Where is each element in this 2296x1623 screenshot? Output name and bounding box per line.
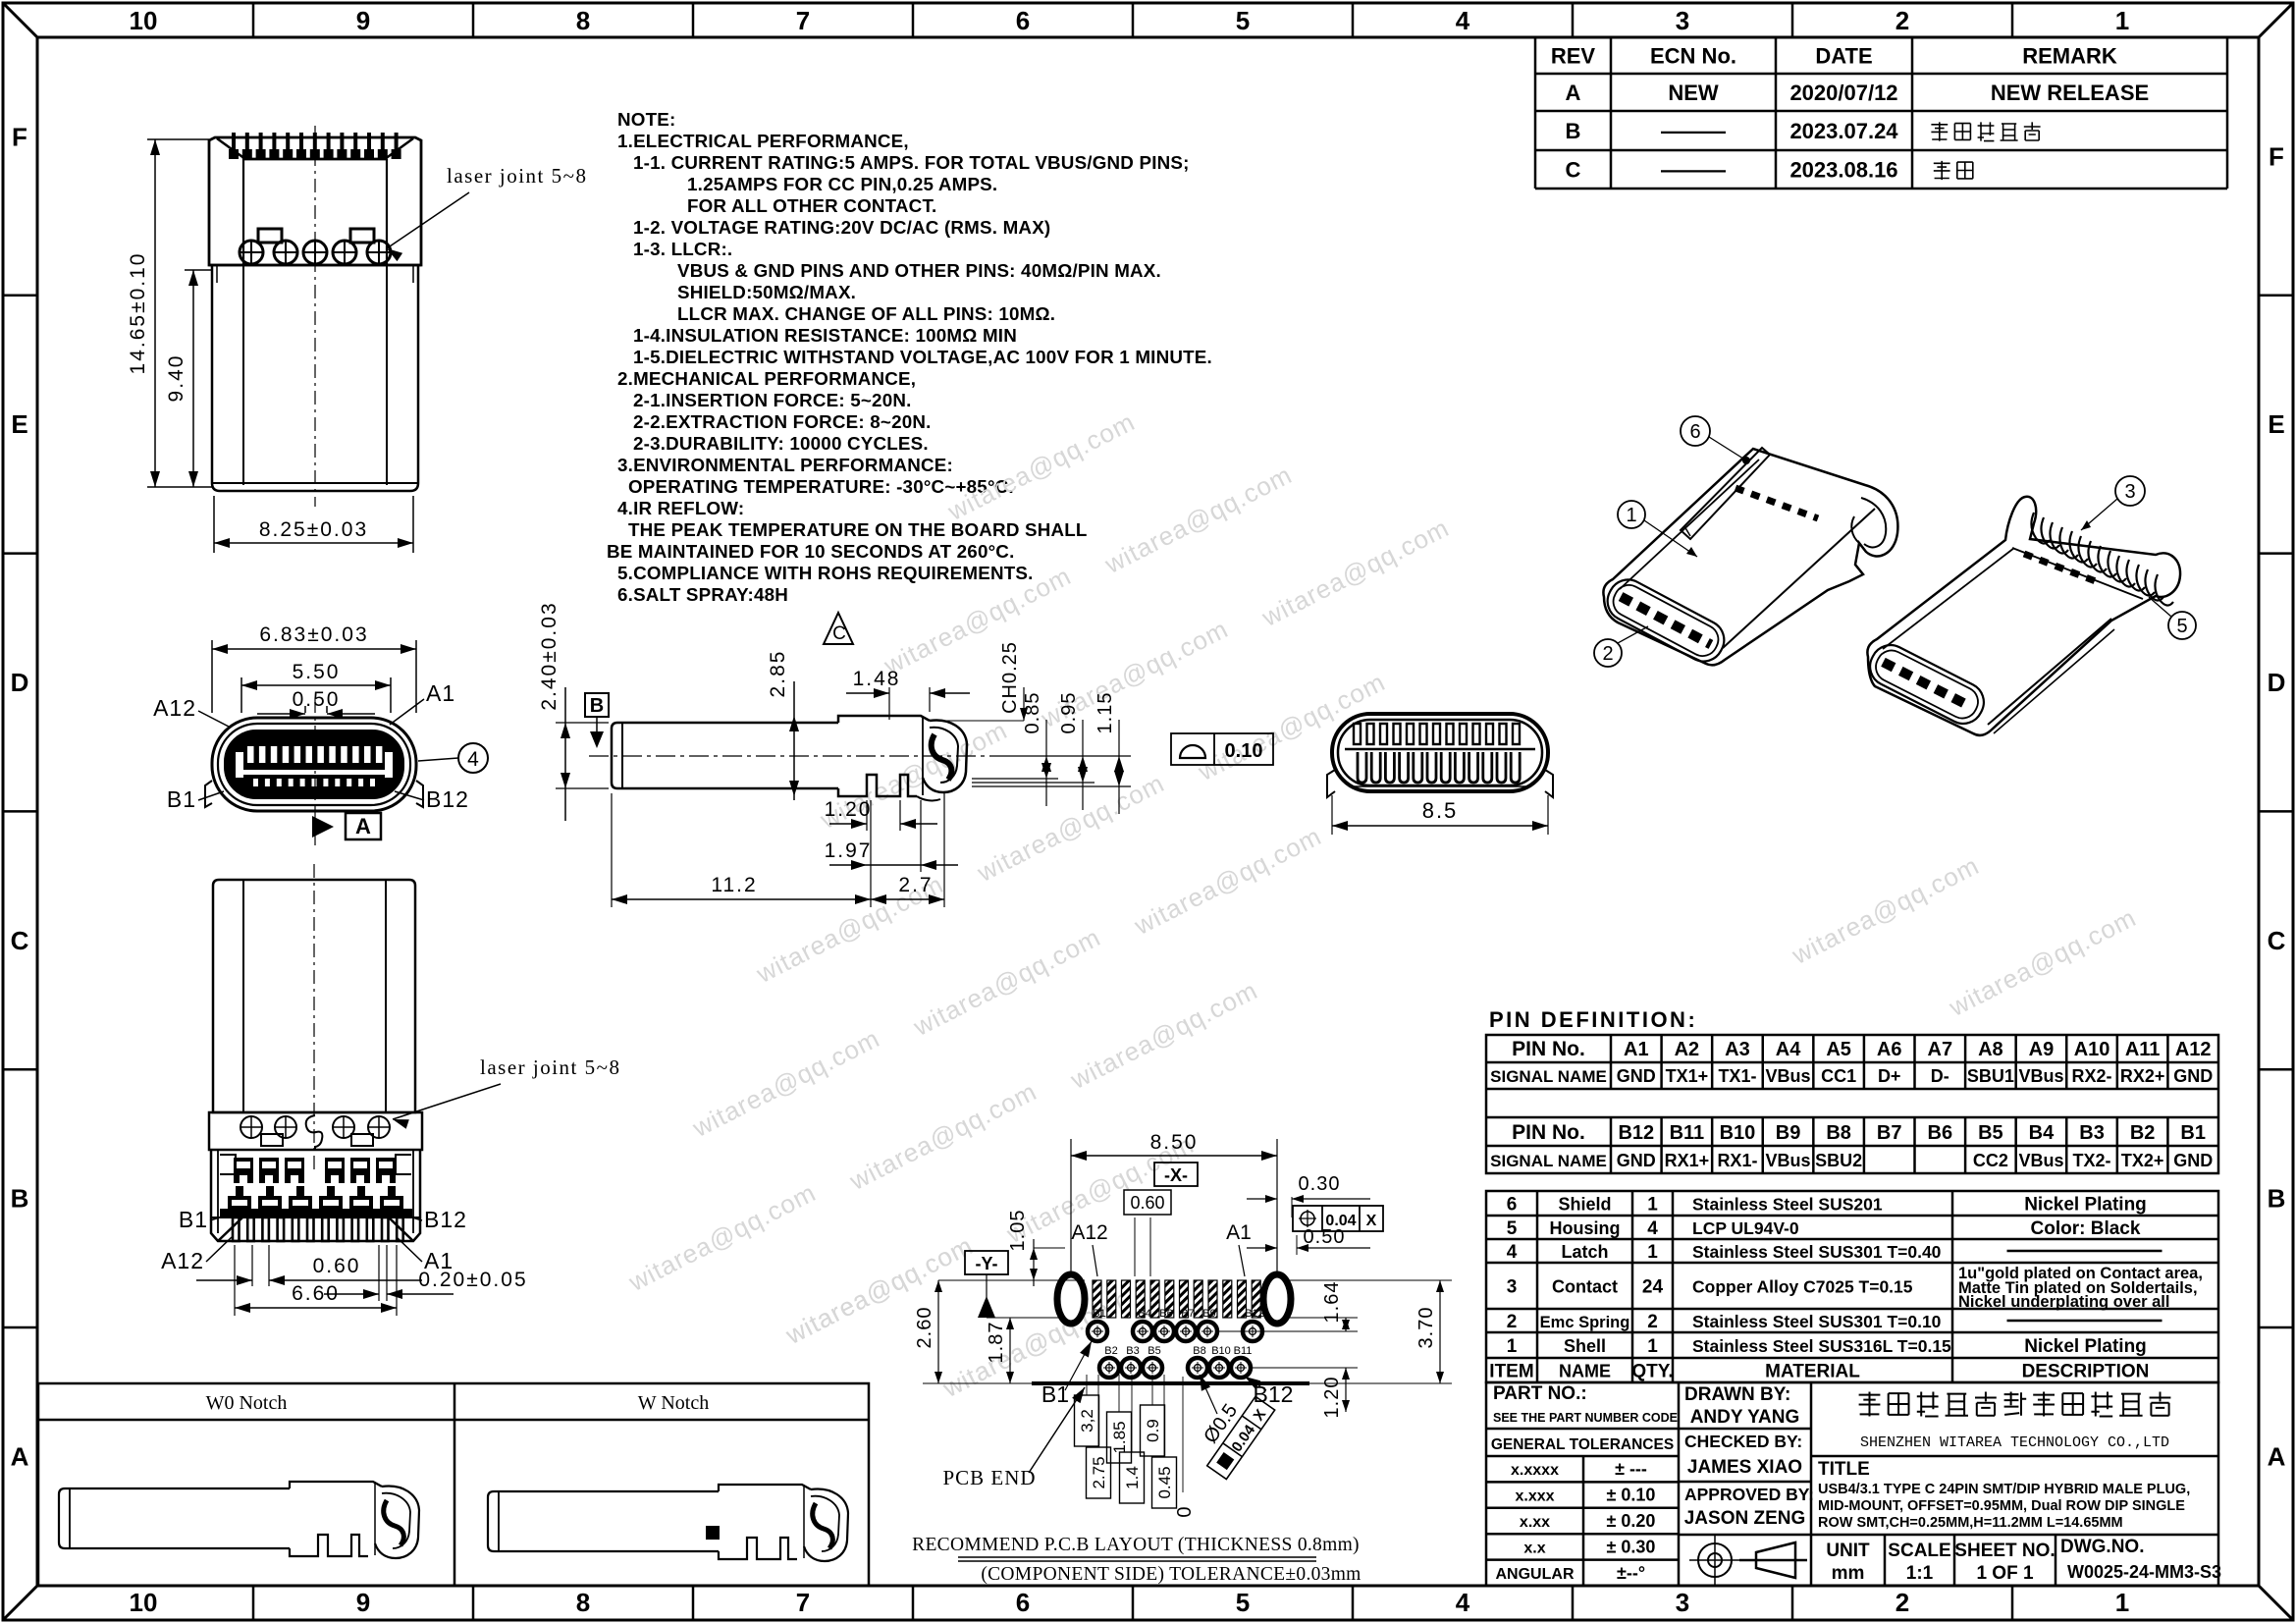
-Y- datum	[965, 1251, 1008, 1274]
svg-text:Shell: Shell	[1564, 1336, 1606, 1356]
svg-text:A2: A2	[1675, 1039, 1700, 1060]
svg-text:USB4/3.1 TYPE C 24PIN SMT/DIP: USB4/3.1 TYPE C 24PIN SMT/DIP HYBRID MAL…	[1818, 1482, 2190, 1497]
svg-text:TX1-: TX1-	[1718, 1066, 1756, 1086]
svg-text:D-: D-	[1931, 1066, 1949, 1086]
svg-text:LLCR MAX. CHANGE OF ALL PINS:: LLCR MAX. CHANGE OF ALL PINS: 10MΩ.	[677, 303, 1055, 324]
svg-text:1.48: 1.48	[853, 668, 901, 690]
svg-text:GND: GND	[2173, 1066, 2213, 1086]
dim 8.50	[1070, 1139, 1072, 1272]
serration engraving	[2024, 554, 2101, 583]
svg-text:0.50: 0.50	[1304, 1226, 1346, 1248]
balloon 2	[1594, 639, 1622, 667]
svg-text:1-1. CURRENT RATING:5 AMPS. FO: 1-1. CURRENT RATING:5 AMPS. FOR TOTAL VB…	[633, 152, 1190, 173]
svg-text:ANDY YANG: ANDY YANG	[1690, 1407, 1800, 1428]
svg-text:0.60: 0.60	[1130, 1193, 1164, 1213]
svg-text:x.x: x.x	[1523, 1540, 1545, 1556]
svg-text:1:1: 1:1	[1906, 1563, 1934, 1584]
latch spring section	[932, 734, 952, 780]
svg-text:CC1: CC1	[1821, 1066, 1856, 1086]
svg-text:Nickel Plating: Nickel Plating	[2024, 1195, 2147, 1216]
svg-text:6: 6	[1016, 6, 1030, 35]
svg-text:5: 5	[1236, 1588, 1250, 1617]
svg-text:TX2-: TX2-	[2073, 1151, 2111, 1170]
svg-text:TX1+: TX1+	[1666, 1066, 1709, 1086]
svg-text:14.65±0.10: 14.65±0.10	[127, 252, 149, 375]
svg-text:1.64: 1.64	[1321, 1281, 1343, 1324]
svg-text:C: C	[832, 623, 846, 644]
svg-text:11.2: 11.2	[711, 874, 757, 896]
svg-text:9.40: 9.40	[165, 354, 187, 403]
svg-text:F: F	[2269, 141, 2284, 171]
view: mating face with contacts	[1332, 714, 1548, 791]
svg-text:3,2: 3,2	[1078, 1409, 1096, 1433]
lower shell body	[209, 264, 421, 267]
svg-text:C: C	[2268, 926, 2286, 955]
svg-text:3: 3	[2124, 481, 2135, 503]
svg-text:RECOMMEND P.C.B LAYOUT (THICKN: RECOMMEND P.C.B LAYOUT (THICKNESS 0.8mm)	[912, 1535, 1360, 1555]
svg-text:2: 2	[1507, 1312, 1518, 1332]
shell curl	[1861, 498, 1886, 547]
svg-text:SCALE: SCALE	[1888, 1541, 1950, 1561]
svg-text:Nickel Plating: Nickel Plating	[2024, 1336, 2147, 1357]
svg-text:B1: B1	[1041, 1381, 1069, 1407]
hook tip	[923, 721, 967, 792]
svg-text:E: E	[2268, 409, 2284, 439]
contact group right (filled)	[325, 1158, 345, 1183]
svg-text:1: 1	[1507, 1336, 1518, 1357]
svg-text:A7: A7	[1928, 1039, 1953, 1060]
svg-text:1: 1	[1626, 505, 1636, 526]
svg-text:2: 2	[1602, 643, 1613, 665]
svg-text:1.25AMPS FOR CC PIN,0.25 AMPS.: 1.25AMPS FOR CC PIN,0.25 AMPS.	[687, 174, 997, 194]
centerline	[313, 864, 315, 1174]
svg-text:C: C	[11, 926, 29, 955]
svg-text:1.20: 1.20	[825, 798, 873, 821]
svg-text:2023.08.16: 2023.08.16	[1789, 158, 1897, 183]
weld block	[209, 1112, 422, 1150]
svg-text:B: B	[1566, 119, 1581, 143]
svg-text:———: ———	[1661, 158, 1726, 183]
svg-text:4.IR REFLOW:: 4.IR REFLOW:	[617, 498, 744, 518]
svg-text:DATE: DATE	[1815, 44, 1872, 69]
svg-text:A12: A12	[153, 695, 196, 721]
dim 9.40	[185, 269, 212, 271]
svg-text:B10: B10	[1720, 1122, 1756, 1144]
side hooks	[1327, 770, 1335, 797]
svg-text:A9: A9	[2029, 1039, 2055, 1060]
svg-text:6.83±0.03: 6.83±0.03	[259, 623, 368, 646]
svg-text:8.25±0.03: 8.25±0.03	[259, 518, 368, 541]
svg-text:B3: B3	[2079, 1122, 2105, 1144]
svg-text:B7: B7	[1181, 1308, 1194, 1320]
svg-text:1.15: 1.15	[1095, 692, 1116, 734]
svg-text:0: 0	[1174, 1506, 1196, 1517]
W0/W notch panels	[38, 1383, 869, 1586]
laser weld circles	[240, 241, 263, 264]
svg-text:± 0.30: ± 0.30	[1607, 1537, 1656, 1556]
svg-text:D: D	[11, 668, 29, 697]
svg-text:0.20±0.05: 0.20±0.05	[418, 1269, 527, 1291]
dim 6.60	[234, 1245, 236, 1316]
svg-text:3: 3	[1507, 1277, 1518, 1298]
svg-text:laser joint 5~8: laser joint 5~8	[480, 1055, 621, 1079]
svg-text:1.20: 1.20	[1321, 1377, 1343, 1419]
svg-text:6.SALT SPRAY:48H: 6.SALT SPRAY:48H	[617, 584, 788, 605]
svg-text:APPROVED BY:: APPROVED BY:	[1684, 1485, 1814, 1504]
svg-text:7: 7	[796, 1588, 810, 1617]
svg-text:2.85: 2.85	[767, 650, 789, 698]
svg-text:8: 8	[576, 1588, 590, 1617]
svg-text:2-3.DURABILITY: 10000 CYCLES.: 2-3.DURABILITY: 10000 CYCLES.	[633, 433, 929, 454]
dim 0.20±0.05	[378, 1245, 380, 1301]
svg-text:± 0.10: ± 0.10	[1607, 1486, 1656, 1505]
svg-text:8.5: 8.5	[1422, 798, 1459, 823]
svg-text:0.10: 0.10	[1225, 740, 1263, 762]
body	[213, 880, 415, 1112]
centerline	[314, 699, 316, 846]
svg-text:B12: B12	[424, 1207, 467, 1232]
top face edges	[1883, 548, 2014, 649]
svg-text:VBUS & GND PINS AND OTHER PINS: VBUS & GND PINS AND OTHER PINS: 40MΩ/PIN…	[677, 260, 1161, 281]
svg-text:7: 7	[796, 6, 810, 35]
svg-text:TITLE: TITLE	[1818, 1459, 1870, 1480]
top serration engraving	[1735, 488, 1818, 518]
lower contact comb	[1358, 752, 1366, 783]
svg-text:3: 3	[1676, 1588, 1689, 1617]
position tolerance box	[1293, 1206, 1383, 1231]
svg-text:GND: GND	[1617, 1151, 1656, 1170]
svg-text:FOR ALL OTHER CONTACT.: FOR ALL OTHER CONTACT.	[687, 195, 936, 216]
svg-text:PIN No.: PIN No.	[1512, 1121, 1585, 1144]
svg-text:2: 2	[1647, 1312, 1658, 1332]
svg-text:A12: A12	[161, 1248, 204, 1273]
ground oval pads	[1057, 1274, 1085, 1324]
svg-text:3: 3	[1676, 6, 1689, 35]
svg-text:B: B	[590, 695, 604, 717]
tongue and contacts (knockout)	[247, 746, 254, 763]
body outline	[1603, 449, 1897, 665]
svg-text:VBus: VBus	[2018, 1066, 2063, 1086]
svg-text:B9: B9	[1776, 1122, 1801, 1144]
svg-text:CHECKED BY:: CHECKED BY:	[1684, 1432, 1802, 1451]
svg-text:5: 5	[1236, 6, 1250, 35]
revision table	[1535, 73, 2227, 76]
svg-text:1: 1	[1647, 1336, 1658, 1357]
svg-text:NEW: NEW	[1668, 81, 1719, 105]
svg-text:1.05: 1.05	[1007, 1210, 1029, 1252]
svg-text:Nickel underplating over all: Nickel underplating over all	[1958, 1293, 2169, 1311]
contact group left (filled)	[234, 1158, 253, 1183]
svg-text:2.75: 2.75	[1090, 1456, 1108, 1488]
top face edges	[1620, 460, 1759, 589]
svg-text:10: 10	[130, 6, 158, 35]
svg-text:B3: B3	[1126, 1345, 1139, 1357]
svg-text:± 0.20: ± 0.20	[1607, 1511, 1656, 1531]
svg-text:MID-MOUNT, OFFSET=0.95MM, Dua: MID-MOUNT, OFFSET=0.95MM, Dual ROW DIP S…	[1818, 1498, 2185, 1514]
svg-text:SEE THE PART NUMBER CODE: SEE THE PART NUMBER CODE	[1493, 1411, 1678, 1425]
shell bottom band	[220, 1209, 412, 1217]
dims 11.2 / 2.7	[611, 793, 613, 907]
centerline	[314, 126, 316, 507]
svg-text:1.85: 1.85	[1110, 1421, 1129, 1453]
svg-text:x.xx: x.xx	[1520, 1514, 1550, 1531]
svg-text:B4: B4	[1138, 1308, 1150, 1320]
svg-text:4: 4	[1456, 1588, 1470, 1617]
svg-text:B10: B10	[1211, 1345, 1231, 1357]
svg-text:1-4.INSULATION RESISTANCE: 100: 1-4.INSULATION RESISTANCE: 100MΩ MIN	[633, 325, 1017, 346]
svg-text:RX1+: RX1+	[1665, 1151, 1710, 1170]
svg-text:Stainless Steel SUS301 T=0.40: Stainless Steel SUS301 T=0.40	[1692, 1242, 1942, 1262]
section datum A	[312, 816, 334, 838]
svg-text:0.30: 0.30	[1299, 1173, 1341, 1195]
svg-text:RX1-: RX1-	[1717, 1151, 1757, 1170]
svg-text:B9: B9	[1202, 1308, 1215, 1320]
svg-text:A: A	[355, 814, 371, 839]
svg-text:2-2.EXTRACTION FORCE: 8~20N.: 2-2.EXTRACTION FORCE: 8~20N.	[633, 411, 932, 432]
svg-text:1: 1	[2115, 6, 2129, 35]
svg-text:9: 9	[356, 1588, 370, 1617]
svg-text:THE PEAK TEMPERATURE ON THE BO: THE PEAK TEMPERATURE ON THE BOARD SHALL	[628, 519, 1088, 540]
svg-text:———: ———	[1661, 119, 1726, 143]
svg-text:B4: B4	[2029, 1122, 2055, 1144]
svg-text:B: B	[2268, 1184, 2286, 1214]
svg-text:DESCRIPTION: DESCRIPTION	[2022, 1362, 2150, 1382]
dim 8.25	[213, 496, 215, 553]
svg-text:W0 Notch: W0 Notch	[206, 1392, 288, 1414]
svg-text:2.60: 2.60	[914, 1307, 935, 1349]
svg-text:F: F	[12, 122, 27, 151]
svg-text:0.9: 0.9	[1144, 1419, 1162, 1442]
svg-text:1.87: 1.87	[986, 1322, 1007, 1364]
svg-text:8.50: 8.50	[1150, 1131, 1199, 1154]
dim 8.5	[1331, 795, 1333, 835]
svg-text:(COMPONENT SIDE) TOLERANCE±0.0: (COMPONENT SIDE) TOLERANCE±0.03mm	[981, 1564, 1361, 1585]
svg-text:±--°: ±--°	[1617, 1563, 1645, 1583]
svg-text:GND: GND	[1617, 1066, 1656, 1086]
balloon 4	[458, 743, 488, 773]
datum B flag	[585, 693, 609, 717]
weld slots	[258, 229, 282, 243]
dim 6.83	[211, 640, 213, 713]
svg-text:A12: A12	[2175, 1039, 2212, 1060]
svg-text:2.40±0.03: 2.40±0.03	[538, 601, 561, 710]
dip holes row 2	[1099, 1358, 1119, 1378]
svg-text:PIN DEFINITION:: PIN DEFINITION:	[1489, 1007, 1697, 1032]
svg-text:1 OF 1: 1 OF 1	[1976, 1563, 2034, 1584]
svg-text:TX2+: TX2+	[2121, 1151, 2164, 1170]
zone grid labels	[252, 3, 255, 37]
svg-text:C: C	[1566, 158, 1581, 183]
notch panel profile	[488, 1491, 499, 1551]
upper contact teeth	[1354, 724, 1361, 744]
svg-text:4: 4	[1456, 6, 1470, 35]
svg-text:B8: B8	[1826, 1122, 1851, 1144]
front oval face	[1601, 572, 1732, 668]
svg-text:B6: B6	[1928, 1122, 1953, 1144]
svg-text:laser joint 5~8: laser joint 5~8	[447, 164, 588, 188]
dim 2.40	[556, 722, 609, 724]
svg-text:9: 9	[356, 6, 370, 35]
svg-text:1.ELECTRICAL PERFORMANCE,: 1.ELECTRICAL PERFORMANCE,	[617, 131, 909, 151]
centerline	[589, 755, 997, 757]
svg-text:Stainless Steel SUS201: Stainless Steel SUS201	[1692, 1195, 1883, 1215]
svg-text:x.xxxx: x.xxxx	[1511, 1462, 1559, 1479]
svg-text:ECN No.: ECN No.	[1650, 44, 1736, 69]
svg-text:A4: A4	[1776, 1039, 1801, 1060]
svg-text:LCP UL94V-0: LCP UL94V-0	[1692, 1218, 1799, 1238]
dim 1.20	[866, 800, 868, 831]
svg-text:A5: A5	[1826, 1039, 1851, 1060]
svg-text:x.xxx: x.xxx	[1515, 1488, 1554, 1505]
svg-text:E: E	[11, 409, 27, 439]
svg-text:JAMES XIAO: JAMES XIAO	[1687, 1457, 1802, 1478]
balloon 6	[1681, 416, 1710, 446]
svg-text:B1: B1	[2180, 1122, 2206, 1144]
contact comb	[2031, 513, 2173, 606]
svg-text:-X-: -X-	[1164, 1165, 1188, 1185]
solder tail pins	[233, 1217, 240, 1241]
dim 2.85	[793, 681, 795, 800]
svg-text:0.85: 0.85	[1022, 692, 1043, 734]
balloon 5	[2168, 612, 2196, 639]
svg-text:A: A	[1566, 81, 1581, 105]
svg-text:1-3. LLCR:.: 1-3. LLCR:.	[633, 239, 732, 259]
body outline	[1867, 497, 2180, 735]
svg-text:B2: B2	[1104, 1345, 1117, 1357]
svg-text:2-1.INSERTION FORCE: 5~20N.: 2-1.INSERTION FORCE: 5~20N.	[633, 390, 912, 410]
svg-text:REV: REV	[1551, 44, 1596, 69]
svg-text:1.4: 1.4	[1123, 1466, 1142, 1489]
svg-text:RX2+: RX2+	[2120, 1066, 2165, 1086]
svg-text:B5: B5	[1148, 1345, 1160, 1357]
svg-text:A1: A1	[426, 680, 455, 706]
side latch windows	[205, 781, 212, 807]
svg-text:A6: A6	[1877, 1039, 1902, 1060]
svg-text:2.MECHANICAL PERFORMANCE,: 2.MECHANICAL PERFORMANCE,	[617, 368, 916, 389]
svg-text:1-5.DIELECTRIC WITHSTAND VOLTA: 1-5.DIELECTRIC WITHSTAND VOLTAGE,AC 100V…	[633, 347, 1212, 367]
svg-text:NEW RELEASE: NEW RELEASE	[1991, 81, 2149, 105]
svg-text:JASON ZENG: JASON ZENG	[1684, 1508, 1806, 1529]
svg-text:B: B	[11, 1184, 29, 1214]
svg-text:RX2-: RX2-	[2072, 1066, 2112, 1086]
dim 1.97	[920, 800, 922, 872]
lower contact plugs (filled T shapes)	[228, 1186, 251, 1214]
svg-text:1: 1	[1647, 1195, 1658, 1216]
svg-text:D: D	[2268, 668, 2286, 697]
svg-text:VBus: VBus	[2018, 1151, 2063, 1170]
svg-text:ITEM: ITEM	[1489, 1362, 1533, 1382]
svg-text:W Notch: W Notch	[638, 1392, 709, 1414]
notch panel profile	[59, 1488, 70, 1548]
svg-text:ANGULAR: ANGULAR	[1496, 1566, 1575, 1583]
svg-text:A1: A1	[1624, 1039, 1649, 1060]
svg-text:4: 4	[1507, 1242, 1518, 1263]
boxed 0.60	[1124, 1190, 1171, 1215]
svg-text:1: 1	[2115, 1588, 2129, 1617]
svg-text:Color: Black: Color: Black	[2031, 1218, 2141, 1239]
svg-text:MATERIAL: MATERIAL	[1765, 1362, 1860, 1382]
svg-text:UNIT: UNIT	[1826, 1541, 1870, 1561]
svg-text:B8: B8	[1193, 1345, 1205, 1357]
shell top block	[209, 137, 421, 265]
svg-text:B12: B12	[1618, 1122, 1654, 1144]
profile tolerance box 0.10	[1171, 733, 1273, 765]
svg-text:PART NO.:: PART NO.:	[1493, 1383, 1587, 1404]
svg-text:Contact: Contact	[1552, 1277, 1618, 1297]
svg-text:SIGNAL NAME: SIGNAL NAME	[1490, 1067, 1607, 1086]
svg-text:SHIELD:50MΩ/MAX.: SHIELD:50MΩ/MAX.	[677, 282, 856, 302]
svg-text:4: 4	[467, 748, 479, 771]
svg-text:0.60: 0.60	[313, 1255, 361, 1277]
flag C	[824, 613, 853, 644]
svg-text:QTY.: QTY.	[1631, 1362, 1673, 1382]
svg-text:CH0.25: CH0.25	[999, 641, 1021, 714]
dim 0.60	[251, 1245, 253, 1286]
svg-text:A: A	[2268, 1441, 2286, 1471]
svg-text:0.45: 0.45	[1155, 1466, 1174, 1498]
svg-text:B12: B12	[1245, 1308, 1264, 1320]
svg-text:3.ENVIRONMENTAL PERFORMANCE:: 3.ENVIRONMENTAL PERFORMANCE:	[617, 455, 953, 475]
svg-text:Copper Alloy C7025 T=0.15: Copper Alloy C7025 T=0.15	[1692, 1277, 1913, 1297]
title block	[1486, 1382, 2218, 1586]
svg-text:SHEET NO.: SHEET NO.	[1954, 1541, 2055, 1561]
svg-text:3.70: 3.70	[1415, 1307, 1437, 1349]
svg-text:A8: A8	[1978, 1039, 2003, 1060]
svg-text:A11: A11	[2125, 1039, 2161, 1060]
svg-text:10: 10	[130, 1588, 158, 1617]
svg-text:CC2: CC2	[1973, 1151, 2008, 1170]
svg-text:ROW SMT,CH=0.25MM,H=11.2MM L=1: ROW SMT,CH=0.25MM,H=11.2MM L=14.65MM	[1818, 1515, 2123, 1531]
svg-text:GENERAL TOLERANCES: GENERAL TOLERANCES	[1491, 1436, 1674, 1453]
dim 14.65	[147, 138, 209, 140]
svg-text:SBU2: SBU2	[1815, 1151, 1862, 1170]
svg-text:VBus: VBus	[1766, 1151, 1811, 1170]
svg-text:PIN No.: PIN No.	[1512, 1038, 1585, 1060]
svg-text:W0025-24-MM3-S3: W0025-24-MM3-S3	[2067, 1562, 2221, 1582]
dim 1.48	[888, 687, 890, 720]
dip holes row 1	[1088, 1322, 1107, 1341]
svg-text:B1: B1	[179, 1207, 208, 1232]
balloon 1	[1618, 501, 1645, 528]
svg-text:SIGNAL NAME: SIGNAL NAME	[1490, 1152, 1607, 1170]
svg-text:0.95: 0.95	[1058, 692, 1080, 734]
svg-text:8: 8	[576, 6, 590, 35]
svg-text:5.50: 5.50	[293, 661, 341, 683]
svg-text:5: 5	[1507, 1218, 1518, 1239]
svg-text:A3: A3	[1725, 1039, 1750, 1060]
svg-text:D+: D+	[1878, 1066, 1901, 1086]
svg-text:2: 2	[1896, 6, 1909, 35]
step block	[838, 716, 930, 723]
boxed rotated dims	[1075, 1395, 1099, 1446]
dim 5.50	[240, 677, 242, 713]
svg-text:5: 5	[2176, 616, 2187, 637]
svg-text:1.97: 1.97	[825, 839, 873, 862]
svg-text:mm: mm	[1832, 1563, 1865, 1584]
svg-text:1: 1	[1647, 1242, 1658, 1263]
svg-text:6: 6	[1507, 1195, 1518, 1216]
svg-text:B1: B1	[1093, 1308, 1105, 1320]
svg-text:DRAWN BY:: DRAWN BY:	[1684, 1384, 1790, 1405]
svg-text:Stainless Steel SUS316L T=0.15: Stainless Steel SUS316L T=0.15	[1692, 1336, 1951, 1356]
svg-text:NAME: NAME	[1559, 1362, 1611, 1381]
retention fin	[1681, 448, 1770, 539]
smt pads	[1093, 1280, 1101, 1318]
-X- datum	[1154, 1163, 1198, 1186]
third angle projection symbol	[1698, 1543, 1732, 1577]
svg-text:0.50: 0.50	[293, 688, 341, 711]
pcb edge line	[1032, 1381, 1309, 1385]
